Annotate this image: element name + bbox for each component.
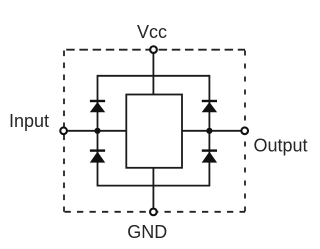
svg-text:GND: GND [127,222,167,242]
svg-text:Vcc: Vcc [137,22,167,42]
svg-text:Input: Input [9,111,49,131]
svg-text:Output: Output [254,136,308,156]
